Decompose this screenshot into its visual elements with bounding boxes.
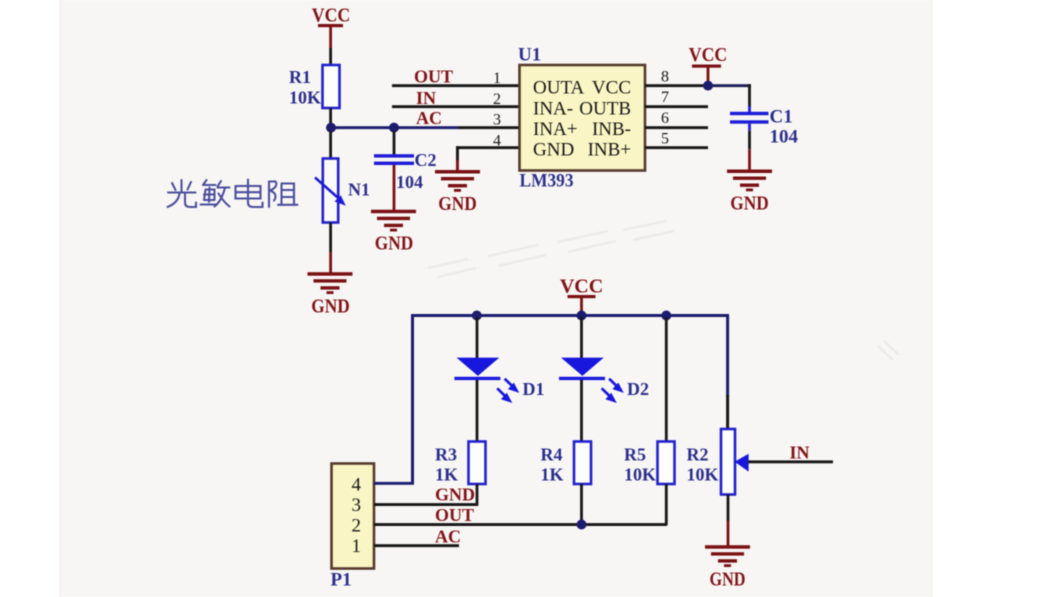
- photoresistor N1: [315, 159, 370, 223]
- wire node AC net (navy horizontal): [330, 126, 458, 129]
- svg-text:1: 1: [352, 536, 362, 557]
- node junction rail/D1: [472, 311, 482, 321]
- svg-text:3: 3: [352, 495, 362, 516]
- svg-text:OUT: OUT: [414, 67, 453, 87]
- node junction rail/VCC: [577, 311, 587, 321]
- svg-text:C2: C2: [415, 150, 437, 170]
- op-amp U1 LM393 body: [518, 45, 645, 192]
- wire U1 pin8 to VCC node: [645, 84, 705, 87]
- 敏: [201, 180, 230, 207]
- label 光敏电阻 (hand-drawn glyph strokes): [168, 180, 298, 208]
- wire rail to R5: [665, 317, 668, 442]
- svg-text:INB-: INB-: [592, 119, 631, 140]
- wire U1 pin2: [392, 105, 520, 108]
- svg-text:VCC: VCC: [592, 78, 631, 99]
- svg-text:OUTB: OUTB: [579, 99, 631, 120]
- svg-text:1K: 1K: [435, 465, 458, 485]
- faint watermark: [428, 221, 899, 360]
- svg-text:GND: GND: [730, 193, 769, 215]
- resistor R1: [289, 65, 340, 108]
- wire AC net to U1 pin3 (black): [458, 126, 520, 129]
- wire D2 to R4: [580, 380, 583, 442]
- wire rail right drop to R2: [726, 314, 729, 397]
- wire R2 to GND: [727, 495, 730, 546]
- potentiometer R2: [687, 429, 736, 495]
- svg-text:2: 2: [352, 515, 362, 536]
- wire C1 to GND: [748, 124, 751, 171]
- wire IN to R2 wiper: [748, 460, 833, 463]
- svg-text:R4: R4: [541, 445, 563, 465]
- wire VCC node to C1 corner: [705, 84, 751, 87]
- svg-text:D2: D2: [627, 379, 649, 399]
- svg-text:LM393: LM393: [520, 171, 574, 192]
- svg-text:AC: AC: [435, 527, 461, 547]
- LED D2: [559, 358, 649, 403]
- svg-text:10K: 10K: [289, 88, 321, 108]
- svg-text:OUTA: OUTA: [533, 78, 585, 99]
- svg-text:INB+: INB+: [588, 140, 631, 161]
- 阻: [269, 182, 298, 208]
- wire corner down to C1: [748, 84, 751, 113]
- svg-text:1: 1: [493, 70, 501, 87]
- svg-text:AC: AC: [416, 108, 442, 128]
- wire P1 pin4 to rail drop: [374, 482, 414, 485]
- svg-text:R3: R3: [435, 445, 457, 465]
- wire U1 pin4 to ground: [456, 146, 520, 170]
- svg-text:1K: 1K: [541, 465, 564, 485]
- wire N1 to GND: [329, 223, 332, 253]
- svg-text:10K: 10K: [624, 465, 656, 485]
- svg-text:6: 6: [661, 110, 669, 127]
- svg-text:104: 104: [770, 127, 799, 148]
- svg-text:104: 104: [396, 172, 423, 192]
- wire rail to D1: [476, 317, 479, 358]
- resistor R5: [624, 442, 675, 485]
- svg-text:R5: R5: [624, 445, 646, 465]
- svg-text:R1: R1: [289, 67, 311, 87]
- wire OUT net up to R5: [665, 484, 668, 525]
- svg-text:VCC: VCC: [689, 44, 728, 66]
- svg-text:8: 8: [661, 69, 669, 86]
- node junction at C2: [389, 123, 399, 133]
- ground under N1: [308, 272, 353, 317]
- ground under R2: [705, 545, 750, 590]
- svg-text:C1: C1: [770, 107, 793, 128]
- wire rail left drop to P1 pin4: [411, 314, 414, 485]
- 光: [168, 180, 197, 207]
- resistor R3: [435, 442, 486, 485]
- svg-text:P1: P1: [331, 570, 352, 591]
- wire U1 pin1: [392, 84, 520, 87]
- ground under C1: [727, 170, 772, 215]
- svg-text:U1: U1: [518, 45, 541, 66]
- svg-text:GND: GND: [375, 233, 414, 255]
- svg-text:VCC: VCC: [312, 5, 351, 27]
- wire D1 to R3: [476, 380, 479, 442]
- node junction at R1/N1: [326, 123, 336, 133]
- svg-text:R2: R2: [687, 445, 709, 465]
- capacitor C1: [730, 107, 799, 148]
- capacitor C2: [374, 131, 437, 192]
- wire U1 pin5: [645, 146, 708, 149]
- 电: [236, 180, 263, 208]
- resistor R4: [541, 442, 592, 485]
- svg-text:GND: GND: [710, 569, 746, 591]
- svg-text:GND: GND: [311, 296, 350, 318]
- svg-text:10K: 10K: [687, 465, 719, 485]
- svg-text:4: 4: [493, 132, 501, 149]
- svg-text:GND: GND: [533, 140, 574, 161]
- R2 wiper arrow: [735, 454, 749, 472]
- ground at U1 pin4: [435, 170, 480, 215]
- svg-text:IN: IN: [416, 88, 436, 108]
- svg-text:N1: N1: [348, 180, 370, 200]
- wire U1 pin6: [645, 126, 708, 129]
- svg-text:GND: GND: [435, 485, 475, 505]
- node junction pin8/VCC: [703, 81, 713, 91]
- power symbol VCC (top-left, feeding R1): [312, 5, 351, 49]
- wire R1 to node: [329, 108, 332, 124]
- svg-text:5: 5: [661, 131, 669, 148]
- wire node to N1: [329, 131, 332, 159]
- ground under C2: [371, 210, 416, 255]
- wire U1 pin7: [645, 105, 708, 108]
- wire C2 to GND: [393, 165, 396, 211]
- svg-text:3: 3: [493, 112, 501, 129]
- power symbol VCC (above C1): [689, 44, 728, 83]
- connector P1: [331, 464, 375, 591]
- svg-text:OUT: OUT: [435, 505, 474, 525]
- svg-text:GND: GND: [438, 193, 477, 215]
- wire R3 to GND net: [476, 484, 479, 506]
- svg-text:INA+: INA+: [533, 119, 578, 140]
- svg-text:VCC: VCC: [560, 276, 603, 298]
- wire P1 pin1 AC stub: [374, 544, 459, 547]
- wire VCC to R1: [329, 48, 332, 66]
- node junction OUT/R4: [577, 520, 587, 530]
- wire rail to D2: [580, 317, 583, 358]
- wire VCC rail (navy horizontal): [411, 314, 729, 317]
- wire R4 to OUT net: [580, 484, 583, 526]
- node junction rail/R5: [661, 311, 671, 321]
- LED D1: [454, 358, 544, 403]
- power symbol VCC (LED rail): [560, 276, 603, 315]
- svg-text:IN: IN: [790, 443, 810, 463]
- svg-text:4: 4: [352, 475, 362, 496]
- wire P1 pin3 GND net: [374, 503, 478, 506]
- svg-text:2: 2: [493, 91, 501, 108]
- svg-text:D1: D1: [523, 379, 545, 399]
- svg-text:INA-: INA-: [533, 99, 573, 120]
- wire P1 pin2 OUT net: [374, 523, 667, 526]
- svg-text:7: 7: [661, 89, 669, 106]
